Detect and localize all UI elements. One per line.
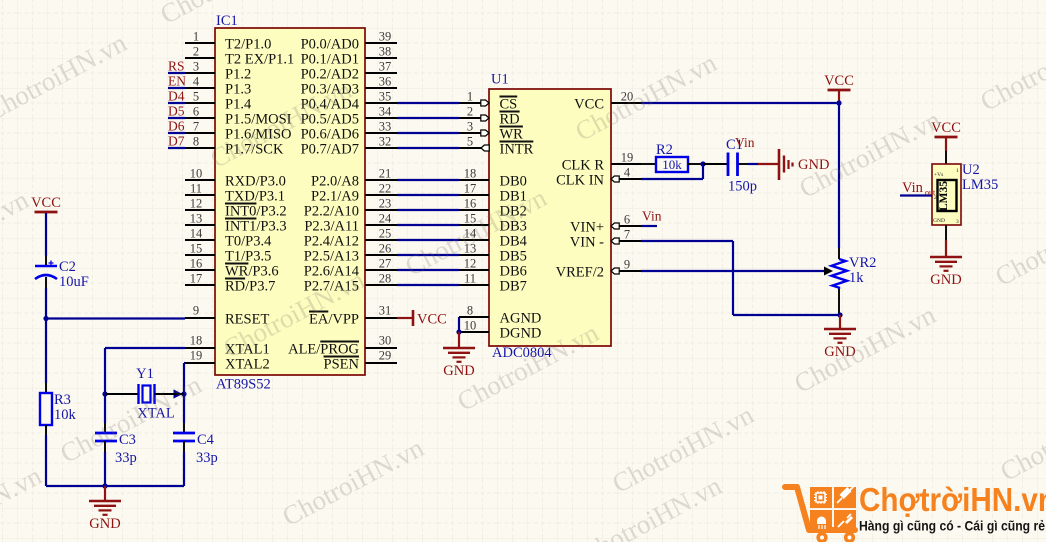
svg-text:DB4: DB4 [500, 234, 528, 250]
svg-text:5: 5 [467, 135, 473, 149]
svg-text:16: 16 [464, 197, 477, 211]
wire U1 CLK R pin19 lead [641, 163, 656, 165]
svg-text:ALE/PROG: ALE/PROG [288, 342, 359, 358]
svg-text:21: 21 [379, 167, 392, 181]
svg-text:P2.1/A9: P2.1/A9 [311, 189, 359, 205]
svg-text:DGND: DGND [500, 326, 542, 342]
svg-text:GND: GND [930, 272, 961, 288]
svg-text:16: 16 [190, 257, 203, 271]
svg-text:INTR: INTR [500, 142, 534, 158]
svg-text:2: 2 [467, 105, 473, 119]
svg-text:T2 EX/P1.1: T2 EX/P1.1 [225, 52, 294, 68]
logo title ChotroiHN.vn [859, 482, 1046, 519]
VCC stem + pin to U2 [945, 137, 947, 164]
svg-text:P0.1/AD1: P0.1/AD1 [301, 52, 359, 68]
svg-text:19: 19 [190, 349, 203, 363]
junction bottom rail [102, 483, 107, 488]
svg-text:32: 32 [379, 135, 392, 149]
svg-text:DB0: DB0 [500, 174, 527, 190]
designator U2 [962, 162, 980, 178]
svg-text:T0/P3.4: T0/P3.4 [225, 234, 272, 250]
logo shopping cart [785, 486, 856, 531]
svg-text:VCC: VCC [824, 73, 854, 89]
svg-text:33: 33 [379, 120, 392, 134]
svg-text:P0.0/AD0: P0.0/AD0 [301, 37, 359, 53]
svg-text:+Vs: +Vs [934, 172, 943, 178]
svg-text:P2.3/A11: P2.3/A11 [304, 219, 359, 235]
svg-text:P2.2/A10: P2.2/A10 [304, 204, 359, 220]
net label Vin_out wire [900, 180, 936, 197]
svg-text:12: 12 [464, 257, 477, 271]
capacitor C3 33p [95, 432, 137, 466]
IC1 right pin names [288, 37, 360, 373]
svg-text:WR: WR [500, 127, 524, 143]
svg-text:VCC: VCC [417, 312, 447, 328]
svg-text:GND: GND [89, 516, 120, 532]
bus wires IC1 P0.4-P0.7 to U1 CS RD WR INTR [397, 103, 459, 148]
IC1 right overlines (EA, PROG, PSEN) [309, 312, 359, 357]
VR2 bottom lead [838, 289, 840, 315]
junction on RESET net [43, 316, 48, 321]
svg-text:Y1: Y1 [136, 366, 154, 382]
wire junction to CLK IN [641, 164, 703, 179]
svg-text:11: 11 [464, 272, 476, 286]
IC1 left pin names [225, 37, 294, 373]
svg-text:17: 17 [190, 272, 203, 286]
svg-text:19: 19 [621, 151, 634, 165]
svg-text:6: 6 [624, 213, 630, 227]
power port VCC (reset divider) [31, 195, 61, 212]
svg-text:CS: CS [500, 97, 518, 113]
bottom rail wire [46, 485, 184, 487]
junction VCC rail [836, 100, 841, 105]
ground GND bottom-left [89, 501, 121, 532]
svg-text:U2: U2 [962, 162, 980, 178]
IC1 right pins 21-28 with pin numbers [365, 167, 397, 286]
svg-text:11: 11 [190, 182, 202, 196]
wire IC1 XTAL1 to left column [105, 348, 185, 394]
svg-text:P1.4: P1.4 [225, 97, 252, 113]
svg-text:3: 3 [956, 219, 959, 225]
svg-text:26: 26 [379, 242, 392, 256]
svg-text:P0.7/AD7: P0.7/AD7 [301, 142, 359, 158]
svg-text:7: 7 [193, 120, 199, 134]
sensor U2 LM35 body [932, 164, 961, 225]
power port VCC at IC1 pin 31 (EA/VPP) [397, 310, 447, 328]
svg-text:150p: 150p [728, 179, 757, 195]
svg-text:C2: C2 [59, 259, 76, 275]
svg-text:P2.0/A8: P2.0/A8 [311, 174, 359, 190]
ground stem below VR2 [839, 315, 841, 329]
svg-text:7: 7 [624, 228, 630, 242]
svg-text:10: 10 [464, 319, 477, 333]
svg-text:DB5: DB5 [500, 249, 527, 265]
wire crystal left lead [105, 393, 138, 395]
svg-text:WR/P3.6: WR/P3.6 [225, 264, 279, 280]
ground stem bottom-left [104, 486, 106, 501]
U1 right pins with numbers and arrows [611, 90, 641, 275]
svg-text:33p: 33p [196, 450, 218, 466]
svg-text:29: 29 [379, 349, 392, 363]
svg-text:39: 39 [379, 30, 392, 44]
svg-text:1k: 1k [849, 270, 864, 286]
svg-text:out: out [925, 188, 936, 197]
ground GND below VR2 [824, 329, 856, 360]
IC1 pin name overlines (INT0, INT1, WR, RD) [225, 204, 256, 279]
wire VCC rail down to VR2 [838, 103, 840, 259]
IC1 right pins 39-32 with pin numbers [365, 30, 397, 149]
svg-text:10uF: 10uF [59, 274, 89, 290]
designator IC1 [216, 13, 238, 29]
svg-text:22: 22 [379, 182, 392, 196]
net label EN [168, 74, 186, 89]
wire RESET to IC1 pin 9 [46, 317, 185, 319]
svg-text:14: 14 [190, 227, 203, 241]
ground sideways at C1 [758, 149, 829, 180]
svg-text:4: 4 [624, 166, 631, 180]
svg-text:R3: R3 [54, 392, 71, 408]
junction at DGND [456, 329, 461, 334]
svg-text:18: 18 [464, 167, 477, 181]
ground GND below U1 [443, 348, 475, 379]
svg-text:RXD/P3.0: RXD/P3.0 [225, 174, 286, 190]
wire VCC to C2 [45, 213, 47, 266]
svg-text:37: 37 [379, 60, 392, 74]
U1 left pins CS RD WR INTR with numbers and input arrows [459, 90, 489, 152]
svg-text:15: 15 [190, 242, 203, 256]
designator value LM35 [962, 177, 998, 193]
data bus wires IC1 P2.x to U1 DBx [397, 180, 459, 285]
svg-text:TXD/P3.1: TXD/P3.1 [225, 189, 285, 205]
net label D4 [168, 89, 185, 104]
IC1 left pins 10-17 with pin numbers [185, 167, 215, 286]
svg-text:C4: C4 [197, 432, 215, 448]
svg-text:VREF/2: VREF/2 [556, 265, 604, 281]
svg-text:9: 9 [624, 258, 630, 272]
svg-text:23: 23 [379, 197, 392, 211]
svg-text:INT0/P3.2: INT0/P3.2 [225, 204, 287, 220]
power port VCC (ADC rail) [824, 73, 854, 90]
svg-text:RD/P3.7: RD/P3.7 [225, 279, 275, 295]
resistor R3 10k [40, 392, 77, 425]
net label D6 [168, 119, 185, 134]
capacitor C1 150p [726, 137, 757, 195]
svg-text:1: 1 [467, 90, 473, 104]
svg-text:P2.5/A13: P2.5/A13 [304, 249, 359, 265]
svg-text:CLK IN: CLK IN [556, 173, 604, 189]
logo tagline [859, 519, 1045, 535]
svg-text:24: 24 [379, 212, 392, 226]
IC1 left pins 1-8 with pin numbers [185, 30, 215, 149]
power port VCC (LM35) [931, 120, 961, 137]
svg-text:INT1/P3.3: INT1/P3.3 [225, 219, 287, 235]
svg-text:P0.6/AD6: P0.6/AD6 [301, 127, 359, 143]
designator U1 [491, 72, 509, 88]
svg-text:1: 1 [193, 30, 199, 44]
wire XTAL2 net to C4 [183, 394, 185, 433]
wire C1 to ground [748, 163, 758, 165]
net label D7 [168, 134, 185, 149]
svg-text:34: 34 [379, 105, 392, 119]
U1 overlines CS RD WR INTR [500, 97, 534, 142]
svg-text:10k: 10k [54, 407, 77, 423]
wire C2 to junction to R3 [45, 277, 47, 393]
svg-text:AGND: AGND [500, 311, 542, 327]
svg-text:RD: RD [500, 112, 520, 128]
svg-text:DB6: DB6 [500, 264, 527, 280]
svg-text:36: 36 [379, 75, 392, 89]
svg-text:LM35: LM35 [962, 177, 998, 193]
svg-text:D4: D4 [168, 89, 185, 104]
svg-text:8: 8 [193, 135, 199, 149]
wire C3 to rail [104, 441, 106, 486]
svg-text:DB7: DB7 [500, 279, 527, 295]
wire crystal right lead [155, 393, 185, 395]
svg-text:Hàng gì cũng có - Cái gì cũng: Hàng gì cũng có - Cái gì cũng rẻ [859, 519, 1045, 535]
wire U1 VCC pin20 to VCC rail [641, 102, 839, 104]
crystal Y1 XTAL [136, 366, 175, 422]
IC U1 ADC0804 body [489, 89, 611, 346]
svg-text:Vin: Vin [642, 209, 662, 224]
svg-text:D7: D7 [168, 134, 185, 149]
svg-text:38: 38 [379, 45, 392, 59]
capacitor C4 33p [173, 432, 218, 466]
VCC stem [838, 90, 840, 103]
svg-text:35: 35 [379, 90, 392, 104]
svg-text:R2: R2 [656, 142, 673, 158]
svg-text:12: 12 [190, 197, 203, 211]
svg-text:27: 27 [379, 257, 392, 271]
svg-text:13: 13 [190, 212, 203, 226]
svg-text:P1.2: P1.2 [225, 67, 251, 83]
svg-text:VR2: VR2 [849, 255, 876, 271]
capacitor C2 10uF (polarized) [35, 259, 89, 290]
wire R3 to bottom rail [45, 425, 47, 486]
wire U1 VIN- to VR2 bottom [641, 241, 840, 315]
capacitor C1 150p leads [703, 163, 748, 165]
svg-text:3: 3 [467, 120, 473, 134]
junction VR2 bottom [837, 312, 842, 317]
svg-text:D5: D5 [168, 104, 185, 119]
svg-text:4: 4 [193, 75, 200, 89]
svg-text:D6: D6 [168, 119, 185, 134]
svg-text:Vin: Vin [902, 180, 924, 196]
svg-text:RS: RS [168, 59, 185, 74]
wire C4 to rail [183, 441, 185, 486]
svg-text:28: 28 [379, 272, 392, 286]
svg-text:3: 3 [193, 60, 199, 74]
svg-text:10k: 10k [662, 157, 682, 172]
net label RS [168, 59, 185, 74]
net label Vin overlapping C1 [735, 135, 755, 150]
svg-text:31: 31 [379, 304, 392, 318]
U1 data pins DB0-DB7 with numbers [459, 167, 489, 286]
potentiometer VR2 1k [832, 255, 877, 289]
R2 right lead [688, 163, 703, 165]
svg-text:33p: 33p [115, 450, 137, 466]
logo wheels [816, 532, 855, 542]
svg-text:ChợtrờiHN.vn: ChợtrờiHN.vn [859, 482, 1046, 519]
svg-text:T2/P1.0: T2/P1.0 [225, 37, 271, 53]
designator value ADC0804 [492, 345, 552, 361]
svg-text:9: 9 [193, 304, 199, 318]
svg-text:25: 25 [379, 227, 392, 241]
svg-text:VCC: VCC [31, 195, 61, 211]
svg-text:GND: GND [933, 218, 945, 224]
IC1 pins 9,18,19 with pin numbers [185, 304, 215, 364]
wire U1 VREF/2 to VR2 wiper [641, 270, 825, 272]
svg-text:5: 5 [193, 90, 199, 104]
svg-text:P2.4/A12: P2.4/A12 [304, 234, 359, 250]
svg-text:2: 2 [193, 45, 199, 59]
wire IC1 XTAL2 down [184, 363, 185, 394]
svg-text:T1/P3.5: T1/P3.5 [225, 249, 271, 265]
svg-text:U1: U1 [491, 72, 509, 88]
net label Vin at U1 VIN+ [641, 209, 662, 227]
wire to C3 [104, 394, 106, 433]
wire U1 AGND-DGND tie [458, 317, 460, 332]
svg-text:AT89S52: AT89S52 [216, 377, 271, 393]
IC IC1 AT89S52 body [215, 28, 365, 375]
svg-text:EN: EN [168, 74, 186, 89]
designator value AT89S52 [216, 377, 271, 393]
net label D5 [168, 104, 185, 119]
VR2 wiper arrow [824, 267, 833, 276]
svg-text:Vin: Vin [735, 135, 755, 150]
resistor R2 10k [656, 142, 688, 172]
junction crystal left [102, 391, 107, 396]
svg-text:GND: GND [443, 363, 474, 379]
svg-text:18: 18 [190, 334, 203, 348]
svg-text:LM35: LM35 [938, 181, 950, 211]
svg-text:6: 6 [193, 105, 199, 119]
svg-text:P1.3: P1.3 [225, 82, 251, 98]
svg-text:VIN+: VIN+ [570, 220, 604, 236]
svg-text:CLK R: CLK R [562, 158, 605, 174]
svg-text:10: 10 [190, 167, 203, 181]
ground GND below LM35 [930, 257, 962, 288]
svg-text:17: 17 [464, 182, 477, 196]
svg-text:PSEN: PSEN [324, 357, 360, 373]
svg-text:VIN -: VIN - [570, 235, 604, 251]
U2 ground pin [945, 225, 947, 257]
svg-text:8: 8 [467, 304, 473, 318]
ground stem below U1 [458, 332, 460, 348]
junction crystal right [174, 389, 187, 398]
IC1 right pins 31,30,29 with pin numbers [365, 304, 397, 364]
U1 AGND DGND pins with numbers [459, 304, 489, 333]
svg-text:IC1: IC1 [216, 13, 238, 29]
svg-text:30: 30 [379, 334, 392, 348]
junction R2/C1/CLKIN [700, 161, 705, 166]
U1 pin names [500, 97, 605, 342]
svg-text:1: 1 [956, 168, 959, 174]
